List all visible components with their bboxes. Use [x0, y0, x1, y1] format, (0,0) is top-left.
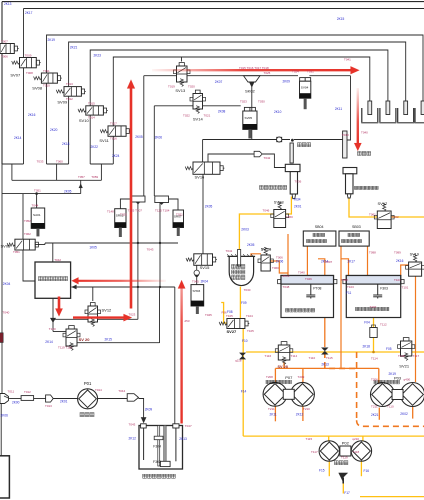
svg-text:2K16: 2K16 [396, 259, 404, 263]
svg-text:T101: T101 [402, 286, 409, 290]
svg-text:2K17: 2K17 [348, 260, 356, 264]
svg-text:2K13: 2K13 [179, 437, 187, 441]
svg-text:T043: T043 [129, 422, 136, 426]
svg-text:SV04: SV04 [301, 86, 309, 90]
svg-text:T118: T118 [398, 354, 405, 358]
svg-text:2K02: 2K02 [400, 412, 408, 416]
svg-text:T052: T052 [24, 219, 31, 223]
svg-text:T041: T041 [226, 249, 233, 253]
svg-text:T119 T116: T119 T116 [58, 346, 72, 350]
svg-text:P02: P02 [342, 441, 350, 446]
svg-text:T046: T046 [263, 209, 270, 213]
svg-text:T008: T008 [26, 71, 33, 75]
svg-text:T040: T040 [342, 133, 349, 137]
svg-text:2K05: 2K05 [135, 135, 143, 139]
svg-text:2K18: 2K18 [62, 142, 70, 146]
svg-text:T017: T017 [110, 122, 117, 126]
svg-text:SV11: SV11 [99, 138, 109, 143]
svg-text:T209: T209 [298, 375, 305, 379]
svg-text:T057: T057 [78, 175, 85, 179]
svg-text:T110: T110 [309, 356, 316, 360]
svg-text:SH03: SH03 [193, 289, 201, 293]
svg-text:2K02: 2K02 [283, 274, 290, 278]
svg-text:SV 28: SV 28 [278, 365, 288, 369]
svg-text:T104: T104 [246, 314, 253, 318]
svg-text:T042: T042 [264, 156, 271, 160]
svg-text:T115: T115 [326, 356, 333, 360]
svg-text:T061: T061 [369, 213, 376, 217]
svg-text:T007: T007 [1, 39, 8, 43]
svg-text:T117: T117 [311, 450, 318, 454]
svg-text:T115: T115 [306, 437, 313, 441]
svg-text:T047: T047 [185, 424, 192, 428]
svg-text:T125 T104: T125 T104 [155, 209, 170, 213]
svg-text:T062: T062 [24, 232, 31, 236]
svg-text:2K09: 2K09 [145, 407, 153, 411]
svg-text:2K10: 2K10 [274, 110, 282, 114]
svg-text:F304: F304 [153, 445, 161, 449]
svg-text:T125 T107: T125 T107 [128, 209, 143, 213]
svg-text:F04: F04 [364, 321, 370, 325]
svg-text:T025: T025 [264, 71, 271, 75]
svg-text:2K23: 2K23 [94, 54, 102, 58]
svg-text:T114: T114 [291, 354, 298, 358]
svg-text:SV19: SV19 [410, 253, 419, 257]
svg-text:T013: T013 [66, 82, 73, 86]
svg-text:T060: T060 [56, 160, 63, 164]
svg-text:T010: T010 [43, 84, 50, 88]
svg-text:F10: F10 [242, 339, 248, 343]
svg-text:2K15: 2K15 [105, 337, 113, 341]
svg-text:2K13: 2K13 [4, 2, 12, 6]
svg-text:2K15: 2K15 [337, 17, 345, 21]
svg-text:F303: F303 [380, 287, 388, 291]
svg-text:T030: T030 [258, 100, 265, 104]
svg-text:T210: T210 [303, 407, 310, 411]
svg-text:2K14: 2K14 [45, 340, 53, 344]
svg-text:2K06: 2K06 [1, 413, 9, 417]
svg-text:SK02: SK02 [245, 89, 256, 94]
svg-text:SV 20: SV 20 [79, 337, 91, 342]
svg-text:T112: T112 [380, 323, 387, 327]
svg-text:2K05: 2K05 [64, 189, 72, 193]
svg-text:T211: T211 [268, 407, 275, 411]
svg-text:T051: T051 [34, 188, 41, 192]
svg-text:T021: T021 [204, 114, 211, 118]
svg-text:F05: F05 [386, 347, 392, 351]
svg-text:T098: T098 [369, 251, 376, 255]
svg-text:T011: T011 [8, 389, 15, 393]
svg-text:SV16: SV16 [195, 175, 206, 180]
svg-text:SV12: SV12 [102, 308, 113, 313]
svg-text:2K06: 2K06 [276, 260, 284, 264]
svg-text:P03: P03 [394, 375, 402, 380]
svg-text:SV15: SV15 [200, 265, 211, 270]
svg-text:T208: T208 [266, 375, 273, 379]
svg-text:2K07: 2K07 [215, 80, 223, 84]
svg-text:T045: T045 [192, 280, 199, 284]
svg-text:T023: T023 [120, 213, 127, 217]
svg-text:T030: T030 [244, 288, 251, 292]
svg-text:T020: T020 [188, 85, 195, 89]
svg-text:T040: T040 [298, 271, 305, 275]
svg-text:T044: T044 [118, 389, 125, 393]
svg-text:2K19: 2K19 [48, 38, 56, 42]
svg-text:F15: F15 [319, 469, 325, 473]
svg-text:SV14: SV14 [193, 117, 204, 122]
svg-text:2K20: 2K20 [50, 128, 58, 132]
svg-text:T059: T059 [91, 175, 98, 179]
svg-text:2K12: 2K12 [129, 437, 137, 441]
svg-text:T011: T011 [43, 69, 50, 73]
svg-text:P07: P07 [285, 375, 293, 380]
svg-text:T105: T105 [226, 314, 233, 318]
svg-text:2K01: 2K01 [60, 400, 68, 404]
svg-text:T060: T060 [272, 266, 279, 270]
svg-text:T098: T098 [341, 278, 348, 282]
svg-text:SV21: SV21 [399, 363, 410, 368]
svg-text:2K06: 2K06 [155, 136, 163, 140]
svg-text:2K13: 2K13 [321, 363, 329, 367]
svg-text:T117: T117 [413, 354, 420, 358]
svg-text:T051: T051 [13, 250, 20, 254]
svg-text:2K14: 2K14 [14, 136, 22, 140]
svg-text:T040: T040 [3, 311, 10, 315]
svg-text:2K04: 2K04 [3, 282, 11, 286]
svg-text:SV 26: SV 26 [261, 248, 271, 252]
svg-text:T105: T105 [247, 329, 254, 333]
svg-text:T116: T116 [265, 354, 272, 358]
svg-text:T044: T044 [32, 204, 39, 208]
svg-text:T206: T206 [371, 378, 378, 382]
svg-text:F11: F11 [346, 291, 351, 295]
svg-text:F09: F09 [241, 301, 247, 305]
svg-text:T040: T040 [361, 131, 368, 135]
svg-text:SA01: SA01 [33, 213, 41, 217]
svg-text:2K22: 2K22 [91, 145, 99, 149]
svg-text:2K24: 2K24 [112, 154, 120, 158]
svg-text:SV13: SV13 [175, 88, 186, 93]
svg-text:T012: T012 [24, 390, 31, 394]
svg-text:F302: F302 [153, 460, 161, 464]
svg-text:T021: T021 [176, 213, 183, 217]
svg-text:2K21: 2K21 [70, 46, 78, 50]
svg-text:T103: T103 [347, 285, 354, 289]
svg-text:SV18: SV18 [274, 199, 285, 204]
svg-text:T024: T024 [292, 70, 299, 74]
svg-text:2K05: 2K05 [205, 204, 213, 208]
svg-text:T211: T211 [371, 405, 378, 409]
svg-text:SB03: SB03 [352, 225, 361, 229]
svg-text:T036: T036 [295, 180, 302, 184]
svg-text:2K11: 2K11 [270, 413, 277, 417]
svg-text:2K03: 2K03 [241, 228, 249, 232]
svg-text:2K08: 2K08 [218, 110, 226, 114]
svg-text:q400: q400 [404, 378, 411, 382]
svg-text:T006: T006 [1, 55, 8, 59]
svg-text:T118: T118 [353, 450, 360, 454]
svg-text:2K19: 2K19 [389, 372, 397, 376]
svg-text:2K12: 2K12 [296, 413, 304, 417]
svg-text:T023: T023 [240, 100, 247, 104]
svg-text:SV03: SV03 [1, 243, 12, 248]
svg-text:T014: T014 [95, 388, 102, 392]
svg-text:T015 T016 T017 T018: T015 T016 T017 T018 [239, 66, 269, 70]
svg-text:T062: T062 [392, 215, 399, 219]
svg-text:2K16: 2K16 [28, 113, 36, 117]
svg-text:F16: F16 [364, 469, 370, 473]
svg-text:2K04: 2K04 [201, 279, 209, 283]
svg-text:T007: T007 [325, 260, 332, 264]
svg-text:T013: T013 [45, 404, 52, 408]
svg-text:T114: T114 [371, 357, 378, 361]
svg-text:F17: F17 [344, 491, 350, 495]
svg-text:SV17: SV17 [378, 201, 389, 206]
svg-text:T119: T119 [341, 455, 348, 459]
svg-text:T120: T120 [49, 327, 56, 331]
svg-text:T043: T043 [147, 248, 154, 252]
svg-text:T023: T023 [129, 313, 136, 317]
svg-text:T006: T006 [276, 256, 283, 260]
svg-text:T034: T034 [293, 197, 300, 201]
svg-text:T016: T016 [110, 137, 117, 141]
svg-text:T048: T048 [283, 285, 290, 289]
svg-text:2K01: 2K01 [294, 204, 302, 208]
svg-text:SV08: SV08 [32, 86, 43, 91]
svg-text:2K09: 2K09 [283, 80, 291, 84]
svg-text:PT08: PT08 [313, 287, 321, 291]
svg-text:T015: T015 [88, 101, 95, 105]
svg-text:T042: T042 [54, 258, 61, 262]
svg-text:T110: T110 [387, 405, 394, 409]
svg-text:SV05: SV05 [245, 116, 253, 120]
svg-text:2K21: 2K21 [371, 413, 379, 417]
svg-text:T014: T014 [88, 116, 95, 120]
svg-text:T099: T099 [394, 251, 401, 255]
svg-text:T019: T019 [168, 85, 175, 89]
svg-text:1K05: 1K05 [89, 245, 97, 249]
svg-text:F14: F14 [241, 390, 247, 394]
svg-text:SB04: SB04 [315, 225, 324, 229]
svg-text:T101: T101 [394, 278, 401, 282]
svg-text:d53: d53 [185, 319, 190, 323]
svg-text:P01: P01 [84, 381, 92, 386]
svg-text:SV27: SV27 [227, 329, 238, 334]
svg-text:2K05: 2K05 [247, 243, 255, 247]
svg-text:q118: q118 [235, 359, 242, 363]
svg-text:T060: T060 [286, 215, 293, 219]
svg-text:SV07: SV07 [10, 73, 21, 78]
svg-text:q210: q210 [352, 437, 359, 441]
svg-text:2K17: 2K17 [25, 11, 33, 15]
svg-text:T012: T012 [66, 97, 73, 101]
svg-text:T033: T033 [37, 160, 44, 164]
svg-text:2K00: 2K00 [12, 400, 20, 404]
svg-text:T041: T041 [344, 58, 351, 62]
svg-text:T107: T107 [370, 305, 377, 309]
svg-text:2K18: 2K18 [363, 345, 371, 349]
svg-text:T031: T031 [307, 70, 314, 74]
svg-text:T148: T148 [107, 210, 114, 214]
svg-text:2K11: 2K11 [335, 107, 342, 111]
svg-text:T045: T045 [205, 313, 212, 317]
svg-text:T022: T022 [183, 114, 190, 118]
svg-text:T046: T046 [305, 277, 312, 281]
svg-text:T009: T009 [25, 54, 32, 58]
